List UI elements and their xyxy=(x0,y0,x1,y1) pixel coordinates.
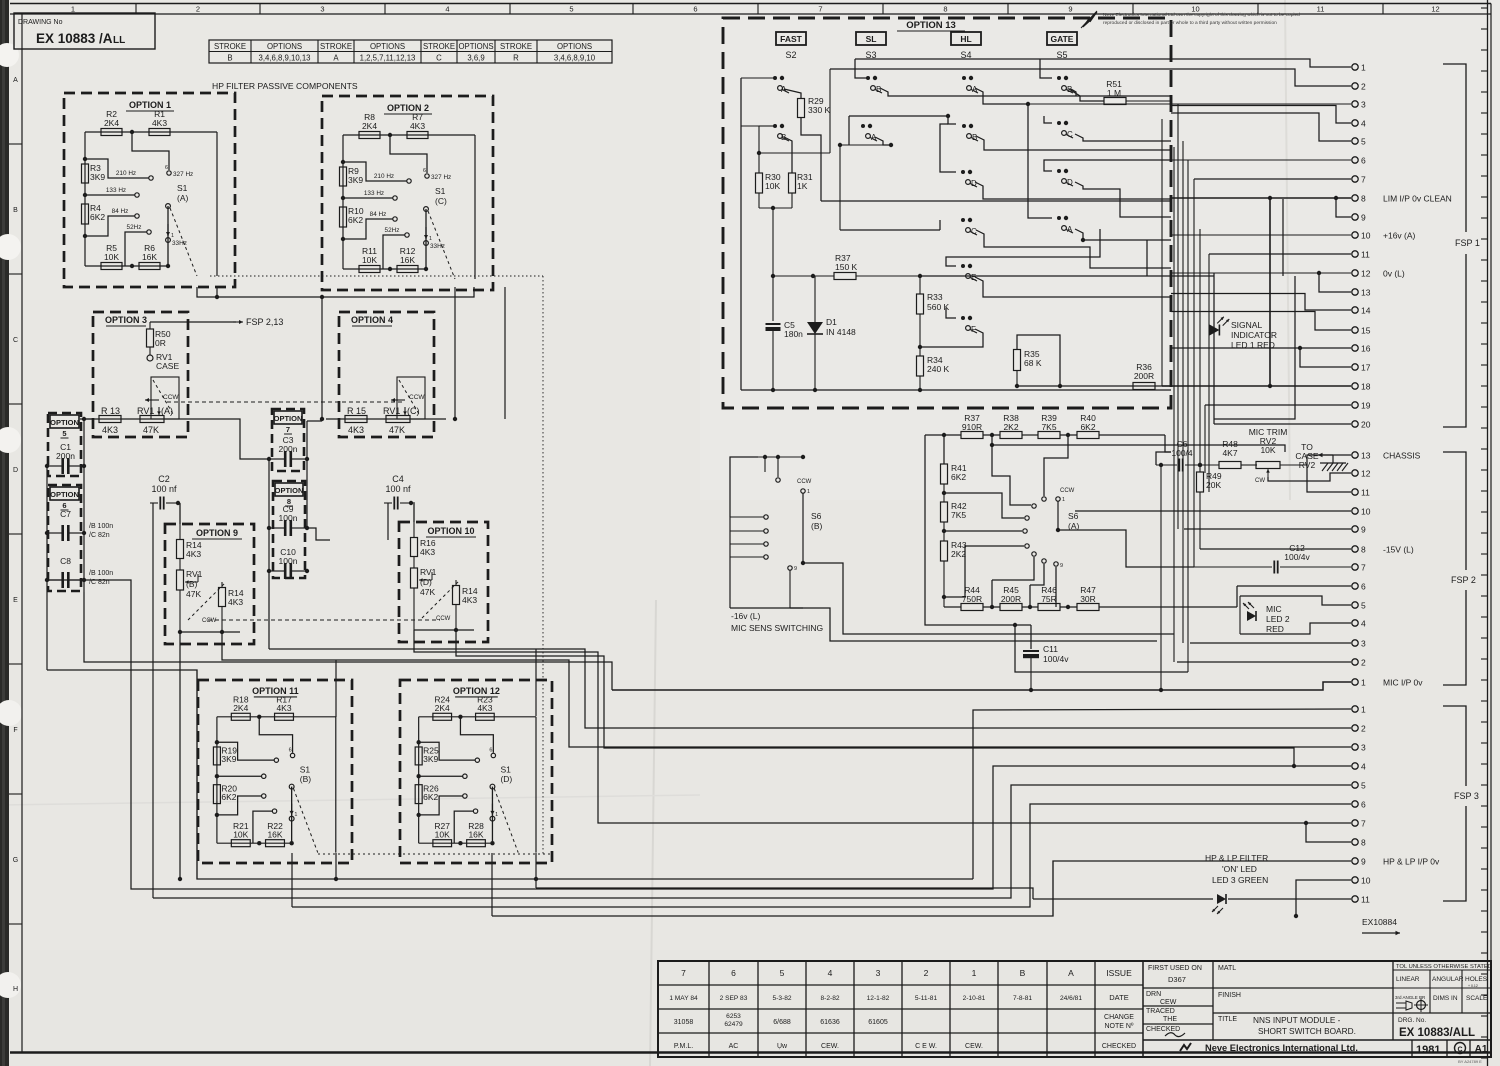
potentiometer RV1 xyxy=(411,568,418,588)
svg-text:3K9: 3K9 xyxy=(423,754,438,764)
svg-text:OPTION 9: OPTION 9 xyxy=(196,528,238,538)
svg-text:TOL UNLESS OTHERWISE STATED: TOL UNLESS OTHERWISE STATED xyxy=(1396,964,1492,970)
svg-text:327 Hz: 327 Hz xyxy=(431,174,451,181)
svg-text:R33: R33 xyxy=(927,292,943,302)
wire bottom xyxy=(85,265,168,267)
switch S3 contact A xyxy=(861,124,865,128)
resistor R23 xyxy=(476,713,495,720)
resistor R43 2K2 xyxy=(943,522,945,541)
wire pin 11 xyxy=(1307,465,1351,492)
connector pin 12 xyxy=(1352,270,1358,276)
wire mesh xyxy=(1071,89,1076,96)
wire xyxy=(80,418,200,420)
svg-text:IN 4148: IN 4148 xyxy=(826,327,856,337)
connector pin 5 xyxy=(1352,602,1358,608)
svg-text:2: 2 xyxy=(924,968,929,978)
copyright A1 xyxy=(1469,1040,1471,1057)
wire mesh to FSP1 pin1 xyxy=(855,59,1351,67)
svg-text:10K: 10K xyxy=(1260,445,1275,455)
wire bottom xyxy=(217,842,292,844)
svg-text:LED 1 RED: LED 1 RED xyxy=(1231,340,1275,350)
junction xyxy=(388,267,392,271)
ruler tick xyxy=(1481,700,1488,702)
svg-text:R 13: R 13 xyxy=(101,406,120,416)
svg-text:6: 6 xyxy=(165,165,168,171)
riser wire xyxy=(1204,405,1206,473)
svg-text:7: 7 xyxy=(1361,175,1366,185)
wire S6B output b xyxy=(790,608,1157,641)
frame tick xyxy=(9,143,22,145)
svg-text:GATE: GATE xyxy=(1051,34,1074,44)
stub xyxy=(217,775,262,777)
svg-text:31058: 31058 xyxy=(674,1019,694,1026)
svg-text:1: 1 xyxy=(1361,678,1366,688)
svg-text:/C 82n: /C 82n xyxy=(89,532,110,539)
switch S5 contact C xyxy=(1057,121,1061,125)
resistor R3 xyxy=(82,164,89,183)
dashed box OPTION 10 xyxy=(399,522,488,642)
switch label GATE xyxy=(1047,32,1077,45)
connector pin 5 xyxy=(1352,782,1358,788)
svg-text:100/4: 100/4 xyxy=(1171,448,1193,458)
junction xyxy=(130,130,134,134)
svg-text:S6: S6 xyxy=(1068,511,1079,521)
svg-text:R: R xyxy=(513,54,519,63)
connector pin 19 xyxy=(1352,402,1358,408)
svg-text:STROKE: STROKE xyxy=(320,42,352,51)
border frame left band xyxy=(21,14,23,1052)
svg-text:DATE: DATE xyxy=(1109,993,1128,1002)
svg-text:4K3: 4K3 xyxy=(276,703,291,713)
bus wire heavy S1 row xyxy=(47,670,973,879)
wire RV2 wiper to pin 12 xyxy=(1268,473,1351,481)
resistor R2 xyxy=(101,129,122,136)
ruler tick xyxy=(1481,154,1488,156)
svg-text:52Hz: 52Hz xyxy=(127,224,142,231)
svg-text:4K3: 4K3 xyxy=(462,595,477,605)
svg-text:0R: 0R xyxy=(155,338,166,348)
bracket FSP 3 xyxy=(1443,706,1466,786)
wire mesh xyxy=(849,116,956,124)
ruler tick xyxy=(1481,28,1488,30)
resistor R21 xyxy=(231,840,250,847)
svg-text:4K3: 4K3 xyxy=(102,425,118,435)
connector pin 9 xyxy=(1352,858,1358,864)
svg-text:B: B xyxy=(876,85,881,94)
wire mesh xyxy=(946,229,1100,266)
wire pin 3 xyxy=(1190,642,1351,644)
svg-text:11: 11 xyxy=(1317,5,1325,14)
svg-text:OPTION: OPTION xyxy=(274,414,303,423)
svg-text:2K4: 2K4 xyxy=(233,703,248,713)
svg-text:NNS INPUT MODULE -: NNS INPUT MODULE - xyxy=(1253,1015,1341,1025)
svg-text:CCW: CCW xyxy=(409,394,425,401)
svg-text:G: G xyxy=(13,857,18,864)
resistor R7 xyxy=(407,132,428,139)
svg-text:2: 2 xyxy=(1361,82,1366,92)
junction xyxy=(257,715,261,719)
svg-text:9: 9 xyxy=(1060,563,1063,569)
svg-text:68 K: 68 K xyxy=(1024,358,1042,368)
title block outline xyxy=(658,961,1491,1057)
wire option8 tail xyxy=(268,571,270,649)
svg-text:7: 7 xyxy=(1361,819,1366,829)
wire FSP1 pin19 xyxy=(1205,404,1351,406)
ruler tick xyxy=(1481,49,1488,51)
svg-text:OPTION 3: OPTION 3 xyxy=(105,315,147,325)
svg-text:6K2: 6K2 xyxy=(221,792,236,802)
switch S3 contact B xyxy=(866,76,870,80)
svg-text:MIC I/P 0v: MIC I/P 0v xyxy=(1383,678,1423,688)
bus wire row907 to FSP3 pin6 xyxy=(292,804,1351,907)
junction xyxy=(215,774,219,778)
frame tick xyxy=(9,403,22,405)
svg-text:B: B xyxy=(13,207,18,214)
ruler tick xyxy=(1481,1015,1488,1017)
switch S5 contact B xyxy=(1057,76,1061,80)
frame tick xyxy=(9,923,22,925)
connector pin 11 xyxy=(1352,251,1358,257)
svg-text:100n: 100n xyxy=(279,513,298,523)
frame tick xyxy=(384,4,386,15)
svg-text:'ON' LED: 'ON' LED xyxy=(1222,864,1257,874)
svg-text:reproduced or disclosed in par: reproduced or disclosed in part or whole… xyxy=(1103,20,1277,26)
svg-text:180n: 180n xyxy=(784,329,803,339)
svg-text:61605: 61605 xyxy=(868,1019,888,1026)
ruler tick xyxy=(1481,721,1488,723)
resistor R50 xyxy=(149,322,151,329)
capacitor C11 xyxy=(1030,625,1032,649)
riser wire xyxy=(1193,179,1195,567)
signal indicator LED 1 xyxy=(1210,325,1220,336)
svg-text:3,4,6,8,9,10: 3,4,6,8,9,10 xyxy=(554,54,596,63)
frame tick xyxy=(135,4,137,15)
svg-text:C8: C8 xyxy=(60,556,71,566)
svg-text:210 Hz: 210 Hz xyxy=(116,170,136,177)
svg-text:CEW.: CEW. xyxy=(965,1043,983,1050)
copyright lightning symbol xyxy=(1083,12,1097,27)
svg-text:1: 1 xyxy=(429,236,432,242)
wire mid loop left xyxy=(925,435,1031,625)
svg-text:HOLES: HOLES xyxy=(1465,976,1488,983)
svg-text:CASE: CASE xyxy=(156,361,179,371)
resistor R28 xyxy=(467,840,486,847)
svg-text:5: 5 xyxy=(1361,781,1366,791)
svg-text:133 Hz: 133 Hz xyxy=(106,187,126,194)
border frame right edge ruler xyxy=(1487,0,1489,1066)
svg-text:2: 2 xyxy=(1361,724,1366,734)
svg-text:2 SEP 83: 2 SEP 83 xyxy=(720,995,748,1002)
svg-text:9: 9 xyxy=(1361,525,1366,535)
switch S4 contact A xyxy=(962,76,966,80)
svg-text:CHASSIS: CHASSIS xyxy=(1383,451,1421,461)
dashed box OPTION 6 xyxy=(48,485,81,591)
pot gang dashed line RV1 B-D xyxy=(208,619,440,621)
wire FSP1 pin12 xyxy=(1171,272,1351,274)
punch hole xyxy=(0,427,21,453)
svg-text:CW: CW xyxy=(1255,478,1265,484)
svg-text:1: 1 xyxy=(1361,63,1366,73)
svg-text:CCW: CCW xyxy=(1060,488,1075,494)
bus wire FSP3 pin10 tap xyxy=(1296,880,1351,916)
svg-text:SL: SL xyxy=(866,34,877,44)
mic LED 2 xyxy=(1247,611,1256,621)
resistor R31 xyxy=(784,137,792,173)
resistor R10 xyxy=(340,207,347,227)
Neve logo xyxy=(1180,1043,1191,1051)
svg-text:8: 8 xyxy=(1361,838,1366,848)
switch S5 contact D xyxy=(1057,169,1061,173)
terminal RV1 CASE xyxy=(149,347,151,355)
stub 210 Hz xyxy=(85,159,149,178)
frame tick xyxy=(632,4,634,15)
svg-text:TRACED: TRACED xyxy=(1146,1008,1175,1015)
wire riser C6 xyxy=(1160,465,1162,690)
junction xyxy=(215,740,219,744)
connector pin 16 xyxy=(1352,345,1358,351)
svg-text:11: 11 xyxy=(1361,488,1370,498)
punch hole xyxy=(0,700,22,726)
resistor R8 xyxy=(359,132,380,139)
svg-text:7: 7 xyxy=(681,968,686,978)
svg-text:CCW: CCW xyxy=(436,616,451,622)
ruler tick xyxy=(1481,574,1488,576)
resistor R17 xyxy=(275,713,294,720)
ruler tick xyxy=(1481,868,1488,870)
dashed box OPTION 1 xyxy=(64,93,235,287)
wire C3 link xyxy=(200,419,269,459)
ruler tick xyxy=(1481,1057,1488,1059)
capacitor C5 xyxy=(771,274,775,278)
stub xyxy=(992,445,1031,505)
border frame top band xyxy=(10,3,1491,5)
wire bottom xyxy=(180,631,240,633)
svg-text:CCW: CCW xyxy=(202,618,217,624)
stub xyxy=(217,796,262,815)
wire S6B output xyxy=(803,563,1174,634)
connector pin 4 xyxy=(1352,763,1358,769)
svg-text:2K4: 2K4 xyxy=(362,121,377,131)
wire option2 to R15 net xyxy=(321,297,323,419)
junction xyxy=(83,193,87,197)
svg-text:100/4v: 100/4v xyxy=(1043,654,1069,664)
junction xyxy=(416,740,420,744)
resistor R14 xyxy=(455,580,457,586)
wire mesh xyxy=(1040,59,1052,78)
svg-text:4K3: 4K3 xyxy=(348,425,364,435)
frame tick xyxy=(1257,4,1259,15)
svg-text:14: 14 xyxy=(1361,306,1371,316)
riser wire xyxy=(1177,104,1179,529)
svg-text:RV1: RV1 xyxy=(137,406,154,416)
svg-text:100/4v: 100/4v xyxy=(1284,552,1310,562)
wire mesh xyxy=(976,136,1171,150)
resistor R35 68K xyxy=(1014,350,1021,371)
svg-text:-16v (L): -16v (L) xyxy=(731,611,760,621)
svg-text:CEW: CEW xyxy=(1160,999,1177,1006)
label OPTION 7 xyxy=(274,411,302,424)
resistor R1 xyxy=(149,129,170,136)
title block right section xyxy=(1142,961,1144,1057)
potentiometer RV1 47K xyxy=(151,377,179,419)
svg-text:3: 3 xyxy=(1361,639,1366,649)
svg-text:2K4: 2K4 xyxy=(435,703,450,713)
svg-text:4: 4 xyxy=(1361,119,1366,129)
wire mesh xyxy=(1017,335,1060,386)
svg-text:13: 13 xyxy=(1361,288,1371,298)
svg-text:4K3: 4K3 xyxy=(410,121,425,131)
wire bottom xyxy=(343,268,426,270)
svg-text:5-11-81: 5-11-81 xyxy=(915,995,938,1002)
wire left xyxy=(342,135,344,269)
ruler tick xyxy=(1481,1036,1488,1038)
svg-text:3K9: 3K9 xyxy=(348,175,363,185)
svg-text:4K7: 4K7 xyxy=(1222,448,1237,458)
svg-text:2K2: 2K2 xyxy=(1003,422,1018,432)
svg-text:(D): (D) xyxy=(500,774,512,784)
ruler tick xyxy=(1481,532,1488,534)
svg-text:OPTIONS: OPTIONS xyxy=(267,42,302,51)
connector pin 17 xyxy=(1352,364,1358,370)
wire xyxy=(326,418,446,420)
svg-text:84 Hz: 84 Hz xyxy=(112,208,129,215)
svg-text:LINEAR: LINEAR xyxy=(1396,976,1420,983)
svg-text:52Hz: 52Hz xyxy=(385,227,400,234)
wire option11 riser xyxy=(335,660,337,717)
svg-text:E: E xyxy=(13,597,18,604)
svg-text:750R: 750R xyxy=(962,594,982,604)
svg-text:SIGNAL: SIGNAL xyxy=(1231,320,1262,330)
wire mesh xyxy=(976,230,1171,268)
svg-text:6: 6 xyxy=(1361,582,1366,592)
resistor R33 560K xyxy=(919,276,921,294)
connector pin 10 xyxy=(1352,232,1358,238)
svg-text:9: 9 xyxy=(1068,5,1072,14)
svg-text:10K: 10K xyxy=(233,830,248,840)
svg-text:33Hz: 33Hz xyxy=(172,240,187,247)
svg-text:1: 1 xyxy=(495,812,498,818)
svg-text:STROKE: STROKE xyxy=(500,42,532,51)
resistor R14 xyxy=(221,582,223,588)
svg-text:10: 10 xyxy=(1361,507,1371,517)
resistor R34 240K xyxy=(919,347,921,356)
svg-text:7K5: 7K5 xyxy=(951,510,966,520)
page left edge strip xyxy=(0,0,9,1066)
frame tick xyxy=(259,4,261,15)
dashed box OPTION 2 xyxy=(322,96,493,290)
svg-text:6: 6 xyxy=(731,968,736,978)
switch S2 contact A xyxy=(773,76,777,80)
svg-text:FINISH: FINISH xyxy=(1218,992,1241,999)
svg-text:19: 19 xyxy=(1361,401,1371,411)
svg-text:11: 11 xyxy=(1361,895,1370,905)
connector pin 3 xyxy=(1352,640,1358,646)
switch S5 contact A xyxy=(1057,216,1061,220)
wire FSP3 pin11 xyxy=(1033,898,1213,900)
svg-text:327 Hz: 327 Hz xyxy=(173,171,193,178)
svg-text:FSP 1: FSP 1 xyxy=(1455,238,1480,248)
svg-text:10: 10 xyxy=(1361,876,1371,886)
connector pin 18 xyxy=(1352,383,1358,389)
svg-text:1,2,5,7,11,12,13: 1,2,5,7,11,12,13 xyxy=(360,54,416,63)
switch gang dotted horizontal xyxy=(210,275,543,277)
svg-text:FAST: FAST xyxy=(780,34,803,44)
svg-text:6: 6 xyxy=(489,748,492,754)
potentiometer body RV1 xyxy=(386,416,410,423)
ruler tick xyxy=(1481,742,1488,744)
bus wire row898 to FSP3 pin5 xyxy=(153,785,1351,898)
svg-text:P.M.L.: P.M.L. xyxy=(674,1043,693,1050)
svg-text:1 MAY 84: 1 MAY 84 xyxy=(669,995,698,1002)
dashed box OPTION 13 xyxy=(723,18,1171,408)
wire FSP1 pin18 0v bus xyxy=(1162,385,1351,387)
svg-text:6K2: 6K2 xyxy=(90,212,105,222)
stub 133 Hz xyxy=(343,197,393,199)
switch S4 contact E xyxy=(961,264,965,268)
svg-text:A: A xyxy=(333,54,339,63)
svg-text:61636: 61636 xyxy=(820,1019,840,1026)
wire mesh xyxy=(975,182,1171,199)
ruler tick xyxy=(1481,616,1488,618)
frame tick xyxy=(757,4,759,15)
dashed box OPTION 7 xyxy=(272,409,304,471)
svg-text:5: 5 xyxy=(780,968,785,978)
stub 52Hz xyxy=(125,232,147,266)
svg-text:5: 5 xyxy=(1361,137,1366,147)
resistor R14 xyxy=(179,504,181,540)
svg-text:6: 6 xyxy=(1361,156,1366,166)
wire -16v bottom xyxy=(730,607,803,609)
svg-text:OPTION 4: OPTION 4 xyxy=(351,315,393,325)
svg-text:3,4,6,8,9,10,13: 3,4,6,8,9,10,13 xyxy=(258,54,310,63)
svg-text:9: 9 xyxy=(794,566,797,572)
svg-text:7K5: 7K5 xyxy=(1041,422,1056,432)
svg-text:84 Hz: 84 Hz xyxy=(370,211,387,218)
ruler tick xyxy=(1481,406,1488,408)
frame tick xyxy=(9,533,22,535)
connector pin 11 xyxy=(1352,489,1358,495)
junction xyxy=(83,157,87,161)
potentiometer RV1 47K xyxy=(397,377,425,419)
LED3 green xyxy=(1228,898,1240,900)
svg-text:R 15: R 15 xyxy=(347,406,366,416)
svg-text:+ 0.12: + 0.12 xyxy=(1468,984,1478,988)
switch gang dashed line xyxy=(170,208,197,276)
svg-text:S1: S1 xyxy=(177,183,188,193)
switch gang dashed line xyxy=(293,788,317,852)
resistor R29 xyxy=(784,89,801,98)
wire to FSP 2,13 xyxy=(150,321,236,323)
svg-text:62479: 62479 xyxy=(724,1021,743,1028)
stub xyxy=(992,557,1034,580)
svg-text:D1: D1 xyxy=(826,317,837,327)
switch label FAST xyxy=(776,32,806,45)
ruler tick xyxy=(1481,994,1488,996)
svg-text:C2: C2 xyxy=(158,474,170,484)
svg-text:SHORT SWITCH BOARD.: SHORT SWITCH BOARD. xyxy=(1258,1026,1356,1036)
connector pin 3 xyxy=(1352,101,1358,107)
svg-text:OPTIONS: OPTIONS xyxy=(370,42,405,51)
svg-text:C7: C7 xyxy=(60,509,71,519)
svg-text:4K3: 4K3 xyxy=(152,118,167,128)
connector pin 9 xyxy=(1352,526,1358,532)
svg-text:100 nf: 100 nf xyxy=(151,484,177,494)
svg-text:OPTIONS: OPTIONS xyxy=(557,42,592,51)
ruler tick xyxy=(1481,763,1488,765)
svg-text:9: 9 xyxy=(1361,213,1366,223)
svg-text:MIC: MIC xyxy=(1266,604,1282,614)
punch hole xyxy=(0,43,19,67)
